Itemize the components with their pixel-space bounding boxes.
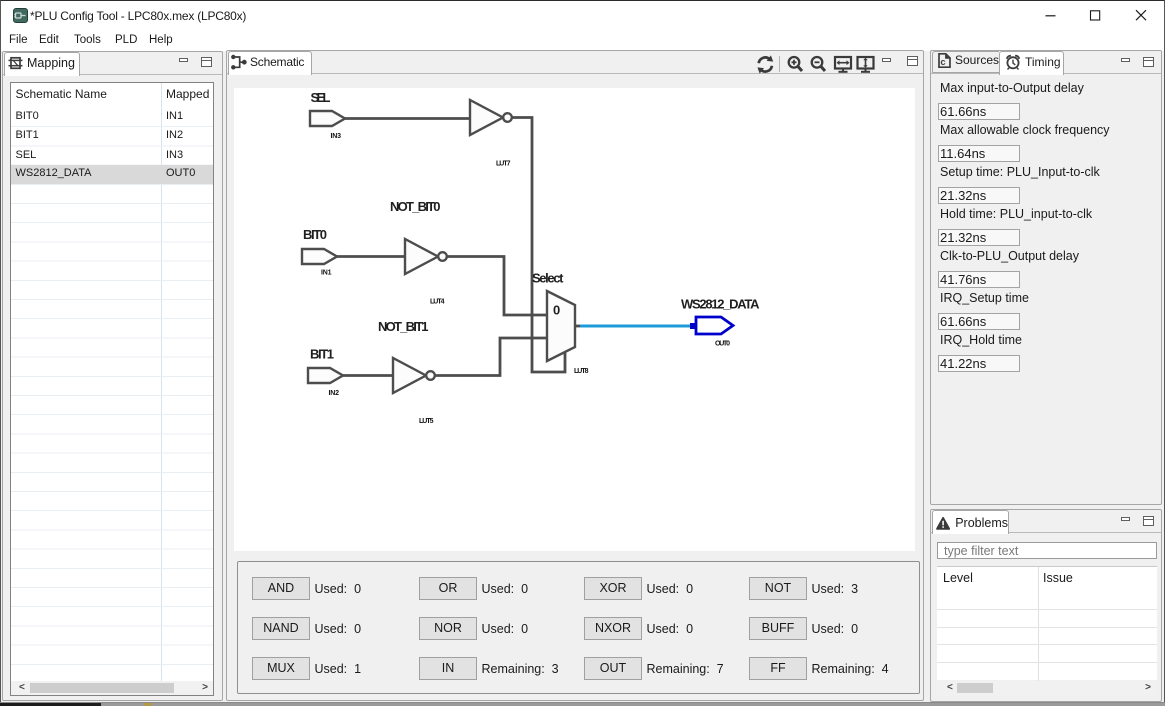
svg-text:IN3: IN3 [331,133,342,140]
svg-text:LUT8: LUT8 [574,368,589,375]
svg-text:BIT0: BIT0 [303,227,327,242]
svg-text:WS2812_DATA: WS2812_DATA [681,297,760,312]
svg-text:c: c [940,57,945,68]
svg-text:SEL: SEL [311,90,331,105]
svg-text:IN1: IN1 [321,270,332,277]
svg-text:Select: Select [532,271,564,286]
svg-text:0: 0 [553,303,560,318]
svg-text:BIT1: BIT1 [310,347,334,362]
svg-text:NOT_BIT1: NOT_BIT1 [378,319,429,334]
svg-text:OUT0: OUT0 [715,341,730,348]
svg-text:LUT7: LUT7 [496,161,511,168]
svg-text:LUT4: LUT4 [430,298,445,305]
svg-text:LUT5: LUT5 [419,418,434,425]
svg-text:NOT_BIT0: NOT_BIT0 [390,199,441,214]
svg-text:IN2: IN2 [329,390,340,397]
